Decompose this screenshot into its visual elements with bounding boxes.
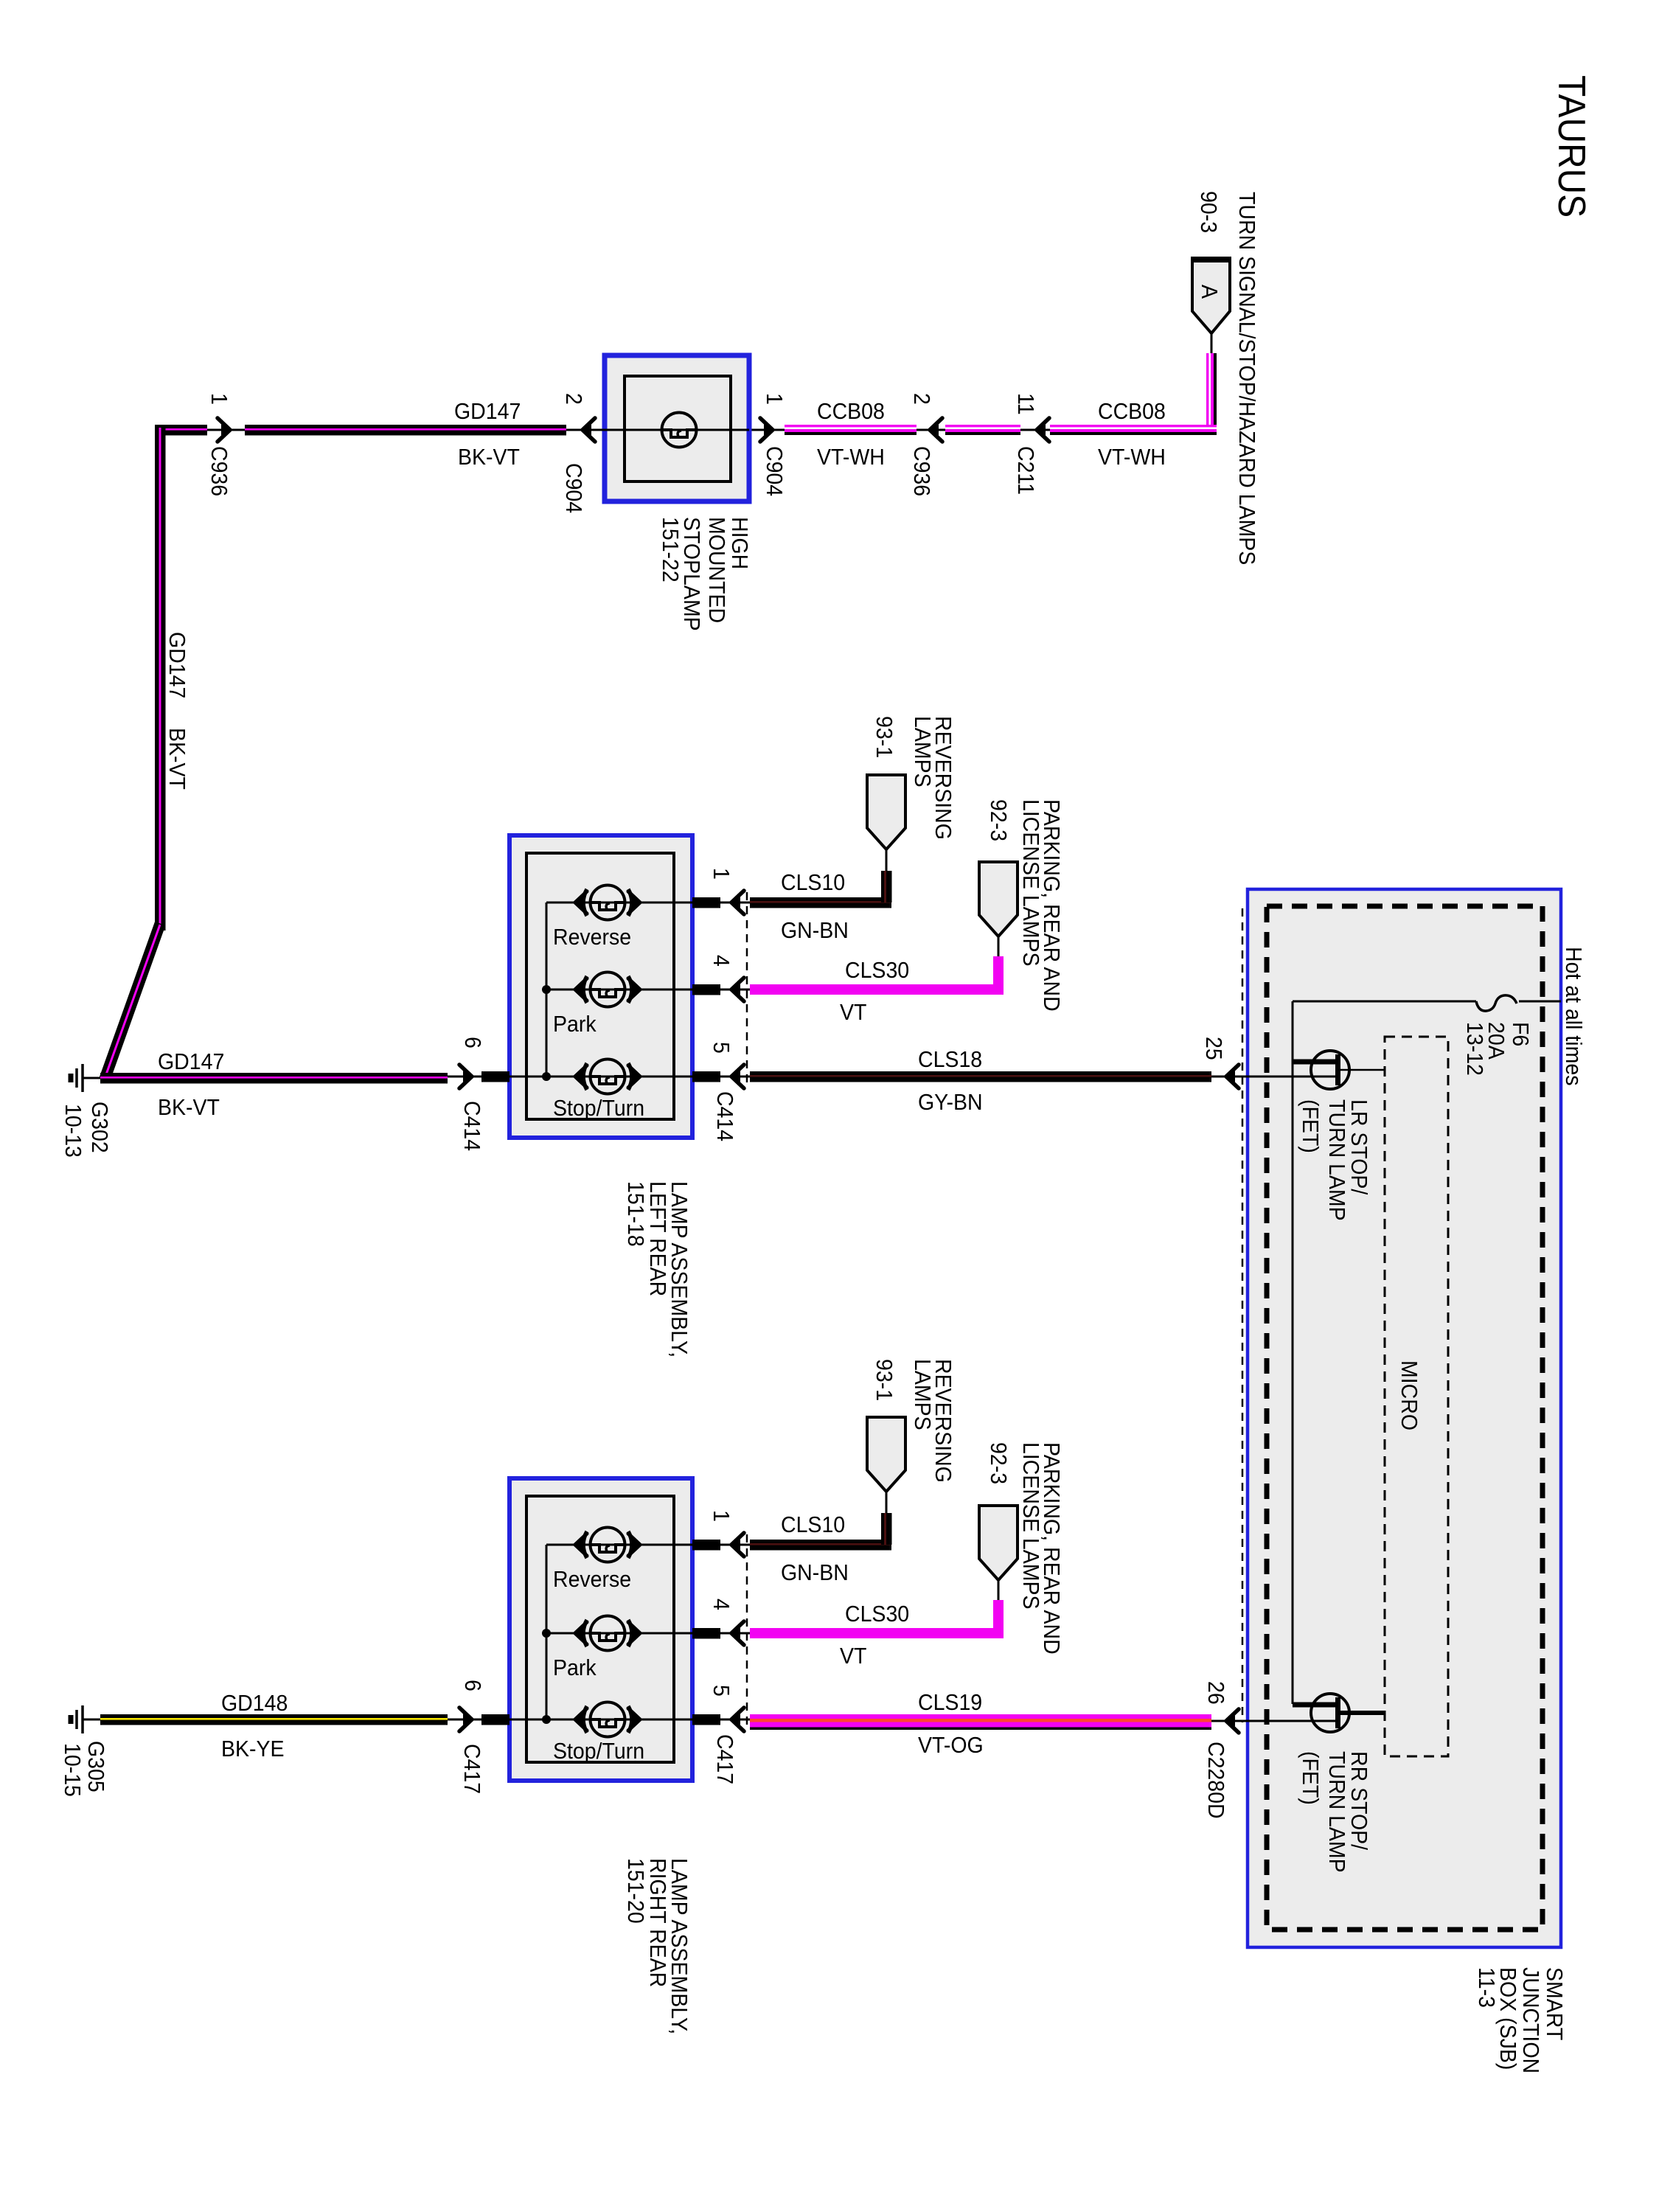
svg-text:LAMPS: LAMPS (910, 1359, 935, 1430)
svg-text:LICENSE LAMPS: LICENSE LAMPS (1018, 799, 1043, 967)
svg-text:GN-BN: GN-BN (781, 918, 849, 943)
svg-text:VT-WH: VT-WH (1098, 445, 1166, 470)
svg-text:5: 5 (709, 1685, 734, 1697)
svg-text:VT: VT (840, 1000, 866, 1025)
svg-text:92-3: 92-3 (986, 799, 1011, 841)
wire CLS30 corner to parking-lamps connector (993, 956, 1004, 990)
svg-text:G302: G302 (87, 1102, 112, 1153)
svg-text:C936: C936 (206, 446, 232, 496)
svg-text:25: 25 (1201, 1037, 1226, 1060)
svg-text:LAMPS: LAMPS (910, 716, 935, 787)
svg-text:1: 1 (206, 393, 232, 405)
connector PARKING REAR AND LICENSE LAMPS (979, 862, 1018, 936)
svg-text:5: 5 (709, 1042, 734, 1054)
ground G305 (83, 1719, 100, 1721)
svg-text:2: 2 (909, 393, 934, 405)
stop/turn lamp bulb (575, 1719, 640, 1721)
connector REVERSING LAMPS (867, 775, 905, 849)
svg-text:VT-OG: VT-OG (918, 1733, 984, 1758)
svg-text:VT: VT (840, 1644, 866, 1669)
wire from connector A (1211, 333, 1213, 355)
wire GD148 BK-YE to ground (100, 1714, 448, 1725)
svg-text:151-18: 151-18 (623, 1181, 648, 1247)
wire (749, 429, 785, 431)
wire GD147 BK-VT vertical run (155, 425, 166, 931)
wire GD147 BK-VT top (245, 425, 566, 436)
wire CCB08 VT-WH segment 3 (1050, 425, 1217, 432)
svg-text:10-15: 10-15 (60, 1743, 85, 1797)
pin 5 stub (692, 1071, 720, 1082)
svg-text:6: 6 (460, 1037, 485, 1048)
svg-text:GY-BN: GY-BN (918, 1090, 983, 1115)
stop/turn lamp wire (509, 1719, 674, 1721)
svg-text:C414: C414 (459, 1101, 484, 1151)
svg-text:GN-BN: GN-BN (781, 1560, 849, 1585)
svg-text:C936: C936 (909, 446, 934, 496)
wire CLS30 corner to parking-lamps connector (993, 1600, 1004, 1633)
svg-text:LICENSE LAMPS: LICENSE LAMPS (1018, 1442, 1043, 1610)
wire CCB08 VT-WH segment 1 (785, 425, 917, 432)
svg-text:Reverse: Reverse (553, 1567, 631, 1592)
wire stem to PARKING LAMPS connector (998, 936, 1000, 956)
pin 4 stub (692, 984, 720, 995)
svg-text:Stop/Turn: Stop/Turn (553, 1739, 644, 1764)
inline connector C936 pin 2 (930, 418, 942, 442)
svg-text:6: 6 (460, 1680, 485, 1691)
ground G302 (83, 1077, 100, 1079)
wire (207, 429, 245, 431)
svg-text:10-13: 10-13 (60, 1104, 86, 1158)
svg-text:GD148: GD148 (221, 1691, 288, 1716)
pin 6 stub (481, 1714, 509, 1725)
svg-text:C904: C904 (561, 463, 586, 513)
pin 4 C414 (674, 989, 692, 991)
pin 4 stub (692, 1628, 720, 1639)
high mounted stoplamp 151-22 (605, 355, 749, 501)
svg-text:(FET): (FET) (1298, 1751, 1323, 1805)
svg-text:C417: C417 (712, 1734, 737, 1784)
pin 6 C414 (448, 1076, 509, 1078)
pin 1 stub (692, 897, 720, 908)
reverse lamp bulb (575, 1544, 640, 1546)
park lamp bulb (575, 1632, 640, 1635)
svg-text:GD147: GD147 (454, 399, 521, 424)
svg-text:HIGH: HIGH (727, 517, 752, 569)
wire CLS19 into SJB pin 26 (1211, 1720, 1335, 1722)
svg-text:1: 1 (709, 1510, 734, 1522)
svg-text:Park: Park (553, 1012, 597, 1037)
svg-text:CLS10: CLS10 (781, 1512, 845, 1537)
inline connector C211 pin 11 (1037, 418, 1049, 442)
pin 5 C417 (674, 1719, 692, 1721)
fuse F6 20A and feed wire (1293, 1001, 1476, 1003)
svg-text:26: 26 (1203, 1681, 1228, 1705)
svg-text:C2280D: C2280D (1203, 1742, 1228, 1819)
internal supply wire (1292, 1001, 1294, 1704)
wire CLS10 GN-BN (750, 897, 891, 908)
inline connector C936 pin 1 (218, 418, 230, 442)
MICRO dashed box (1385, 1037, 1448, 1756)
svg-text:TURN SIGNAL/STOP/HAZARD LAMPS: TURN SIGNAL/STOP/HAZARD LAMPS (1234, 192, 1259, 565)
connector C2280 dashed line at SJB face (1242, 908, 1244, 1722)
stoplamp bulb (605, 429, 749, 431)
svg-text:93-1: 93-1 (872, 716, 897, 758)
park lamp wire (546, 1632, 674, 1635)
svg-text:151-22: 151-22 (658, 517, 683, 582)
wire GD147 BK-VT corner segment (155, 425, 207, 436)
svg-text:F6: F6 (1508, 1022, 1533, 1046)
svg-text:4: 4 (709, 955, 734, 967)
reverse lamp wire (546, 1544, 674, 1546)
connector A (off-page, turn signal/stop/hazard feed) (1192, 258, 1230, 333)
wire (1020, 429, 1050, 431)
stoplamp pin 1 arrow (760, 418, 773, 442)
pin 6 stub (481, 1071, 509, 1082)
wire CLS10 corner to reversing-lamps connector (881, 871, 892, 902)
svg-text:MICRO: MICRO (1397, 1360, 1422, 1430)
wire CLS30 VT (750, 1628, 1004, 1638)
pin 5 C414 (674, 1076, 692, 1078)
wire CLS10 GN-BN (750, 1540, 891, 1551)
wire GD147 BK-VT to ground (100, 1073, 448, 1084)
wire (566, 429, 605, 431)
svg-text:A: A (1197, 285, 1222, 299)
svg-text:CCB08: CCB08 (817, 399, 885, 424)
svg-text:GD147: GD147 (164, 632, 189, 698)
wire stem to REVERSING LAMPS connector (886, 849, 888, 871)
wire CLS10 corner to reversing-lamps connector (881, 1513, 892, 1545)
svg-text:90-3: 90-3 (1196, 191, 1221, 233)
svg-text:Hot at all times: Hot at all times (1561, 947, 1586, 1085)
svg-text:151-20: 151-20 (623, 1858, 648, 1924)
pin 6 C417 (448, 1719, 509, 1721)
svg-text:C904: C904 (762, 446, 787, 496)
reverse lamp wire (546, 902, 674, 904)
svg-text:BK-YE: BK-YE (221, 1736, 285, 1761)
svg-text:CLS19: CLS19 (918, 1690, 982, 1715)
svg-text:BK-VT: BK-VT (458, 445, 520, 470)
svg-text:Stop/Turn: Stop/Turn (553, 1096, 644, 1121)
SJB pin 25 arrow (1226, 1065, 1239, 1088)
svg-text:13-12: 13-12 (1462, 1022, 1487, 1076)
pin 4 C417 (674, 1632, 692, 1635)
svg-text:93-1: 93-1 (872, 1359, 897, 1401)
svg-text:CLS30: CLS30 (845, 958, 909, 983)
svg-text:TURN LAMP: TURN LAMP (1324, 1099, 1349, 1221)
park lamp bulb (575, 989, 640, 991)
svg-text:TURN LAMP: TURN LAMP (1324, 1751, 1349, 1873)
svg-text:SMART: SMART (1542, 1967, 1567, 2040)
park lamp wire (546, 989, 674, 991)
svg-text:C211: C211 (1013, 446, 1038, 495)
pin 1 C414 (674, 902, 692, 904)
pin 1 stub (692, 1540, 720, 1551)
svg-text:(FET): (FET) (1298, 1099, 1323, 1153)
svg-text:GD147: GD147 (158, 1049, 224, 1074)
lamp assembly box LAMP ASSEMBLY, RIGHT REAR (509, 1478, 692, 1781)
svg-text:1: 1 (762, 393, 787, 405)
wire GD147 diagonal to ground (99, 922, 166, 1082)
svg-text:MOUNTED: MOUNTED (704, 517, 729, 623)
svg-text:BK-VT: BK-VT (158, 1095, 220, 1120)
reverse lamp bulb (575, 902, 640, 904)
wire CLS18 into SJB pin 25 (1211, 1076, 1335, 1078)
svg-text:G305: G305 (83, 1741, 108, 1792)
connector PARKING REAR AND LICENSE LAMPS (979, 1506, 1018, 1580)
svg-text:2: 2 (561, 393, 586, 405)
RR stop/turn lamp FET driver (1311, 1694, 1349, 1732)
pin 1 C417 (674, 1544, 692, 1546)
wire stem to REVERSING LAMPS connector (886, 1492, 888, 1513)
wire CLS19 VT-OG (750, 1714, 1211, 1728)
svg-text:Park: Park (553, 1655, 597, 1680)
svg-text:1: 1 (709, 868, 734, 880)
svg-text:JUNCTION: JUNCTION (1518, 1967, 1543, 2073)
svg-text:C414: C414 (712, 1091, 737, 1141)
svg-text:CLS10: CLS10 (781, 870, 845, 895)
stoplamp pin 2 arrow (582, 418, 595, 442)
wire CLS30 VT (750, 984, 1004, 995)
connector REVERSING LAMPS (867, 1417, 905, 1492)
pin 5 stub (692, 1714, 720, 1725)
svg-text:CLS18: CLS18 (918, 1047, 982, 1072)
svg-text:TAURUS: TAURUS (1551, 75, 1593, 218)
svg-text:C417: C417 (459, 1744, 484, 1794)
wire CCB08 VT-WH segment 2 (945, 425, 1020, 432)
svg-text:CLS30: CLS30 (845, 1601, 909, 1627)
svg-text:CCB08: CCB08 (1098, 399, 1166, 424)
stop/turn lamp bulb (575, 1076, 640, 1078)
SJB pin 26 arrow (1226, 1709, 1239, 1733)
stop/turn lamp wire (509, 1076, 674, 1078)
smart junction box (SJB) 11-3 (1248, 889, 1561, 1947)
svg-text:11: 11 (1013, 393, 1038, 415)
connector C417 dashed line (746, 1534, 748, 1730)
svg-text:4: 4 (709, 1599, 734, 1610)
wire (917, 429, 945, 431)
svg-text:VT-WH: VT-WH (817, 445, 885, 470)
svg-text:Reverse: Reverse (553, 925, 631, 950)
lamp assembly box LAMP ASSEMBLY, LEFT REAR (509, 835, 692, 1138)
LR stop/turn lamp FET driver (1311, 1051, 1349, 1089)
wire CCB08 VT-WH vertical (1206, 353, 1214, 435)
internal ground bus wire (546, 902, 548, 1077)
svg-text:11-3: 11-3 (1474, 1967, 1499, 2008)
svg-text:92-3: 92-3 (986, 1442, 1011, 1484)
wire CLS18 GY-BN (750, 1071, 1211, 1082)
wire stem to PARKING LAMPS connector (998, 1580, 1000, 1600)
svg-text:BK-VT: BK-VT (164, 728, 189, 790)
connector C414 dashed line (746, 892, 748, 1087)
internal ground bus wire (546, 1545, 548, 1719)
